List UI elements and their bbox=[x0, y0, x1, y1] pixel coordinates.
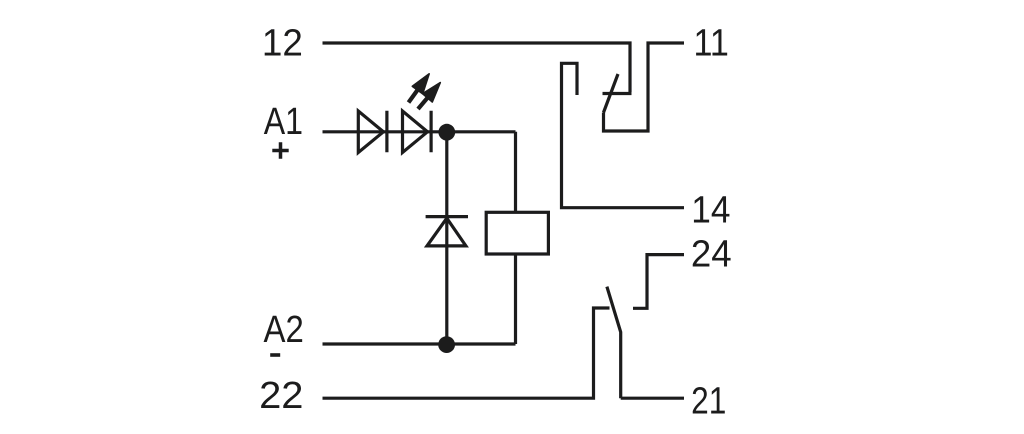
freewheel diode D3 bbox=[426, 217, 468, 246]
wire coil bottom bbox=[514, 254, 517, 344]
wire terminal 11 branch bbox=[604, 43, 685, 131]
node A1 junction dot bbox=[438, 124, 455, 141]
svg-text:12: 12 bbox=[262, 23, 303, 65]
LED arrow 2 bbox=[423, 83, 441, 102]
svg-text:24: 24 bbox=[691, 233, 732, 275]
wire terminal 22 line and fixed contact 22 stub bbox=[323, 308, 610, 398]
svg-text:14: 14 bbox=[691, 190, 730, 232]
svg-text:11: 11 bbox=[694, 23, 729, 65]
label plus bbox=[272, 142, 288, 158]
svg-text:A2: A2 bbox=[264, 309, 304, 351]
svg-text:A1: A1 bbox=[264, 101, 303, 143]
movable contact blade 21 bbox=[607, 287, 621, 399]
diode D1 bbox=[358, 111, 387, 153]
relay coil K1 box bbox=[486, 212, 548, 254]
svg-text:22: 22 bbox=[259, 375, 303, 417]
LED D2 bbox=[403, 111, 432, 153]
wire terminal 24 branch and fixed contact 24 stub bbox=[633, 255, 684, 309]
LED arrow 1 bbox=[412, 74, 429, 94]
wire terminal 14 branch and fixed contact 14 hook bbox=[562, 63, 685, 207]
svg-text:21: 21 bbox=[691, 380, 726, 422]
node A2 junction dot bbox=[438, 336, 455, 353]
wire terminal A2 line bbox=[323, 342, 516, 345]
wire terminal 12 line bbox=[323, 43, 631, 92]
wire A1 branch vertical bbox=[445, 132, 448, 344]
wire terminal 21 line bbox=[621, 397, 684, 400]
fixed contact 12 bar bbox=[603, 92, 632, 95]
movable contact blade 11 bbox=[604, 74, 619, 113]
label minus bbox=[270, 353, 280, 357]
wire terminal A1 line bbox=[323, 130, 516, 133]
wire coil top bbox=[514, 132, 517, 213]
